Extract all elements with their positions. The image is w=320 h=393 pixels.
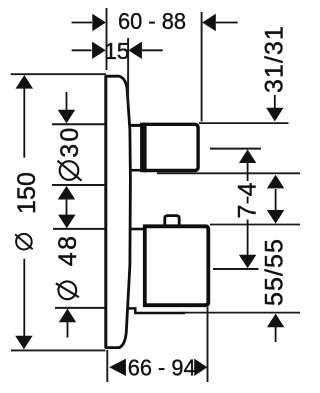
svg-text:48: 48	[54, 233, 82, 266]
upper valve neck	[129, 125, 144, 170]
svg-text:60 - 88: 60 - 88	[118, 8, 186, 34]
dimension 15	[72, 38, 163, 64]
extension line x106.5 top left (wall ref)	[106, 8, 108, 70]
handle top reference line (a)	[199, 122, 289, 124]
dimension 60 - 88	[72, 8, 238, 34]
lower handle top reference line (c)	[210, 224, 300, 226]
svg-text:66 - 94: 66 - 94	[128, 355, 196, 381]
lower sleeve	[129, 229, 185, 313]
handle bottom reference line (b)	[157, 172, 300, 174]
svg-text:5: 5	[117, 38, 130, 64]
dimension Ø 150 (far left)	[11, 74, 106, 350]
lower handle centerline	[213, 268, 259, 270]
svg-text:30: 30	[56, 125, 84, 157]
dimension 55/55	[260, 238, 288, 342]
extension line x201.6 (60-88 right)	[201, 12, 203, 122]
svg-text:1: 1	[104, 38, 117, 64]
upper neck right edge / handle hub band	[140, 123, 146, 173]
svg-text:150: 150	[13, 172, 41, 214]
dimension 31/31 (right upper chain)	[260, 25, 288, 121]
diameter symbol for 150	[15, 234, 33, 250]
dimension Ø30 (left chain)	[52, 92, 105, 216]
sleeve bottom reference line (d)	[183, 312, 300, 314]
dimension Ø48 (left chain)	[53, 215, 105, 338]
extension line x128 (15 right)	[127, 38, 129, 107]
escutcheon plate (side view)	[105, 76, 130, 349]
lower handle	[145, 226, 209, 305]
svg-text:55/55: 55/55	[260, 238, 288, 306]
diameter symbol for 48	[56, 281, 79, 299]
svg-text:31/31: 31/31	[260, 25, 288, 93]
diameter symbol for 30	[58, 161, 82, 181]
31/31 double arrow between lines b and c	[267, 175, 284, 224]
upper handle centerline	[210, 148, 261, 150]
dimension 66 - 94 (bottom)	[107, 307, 207, 382]
upper handle	[145, 124, 198, 170]
dimension 74 (between handle centers)	[234, 149, 262, 268]
temperature stop tab	[165, 216, 179, 227]
